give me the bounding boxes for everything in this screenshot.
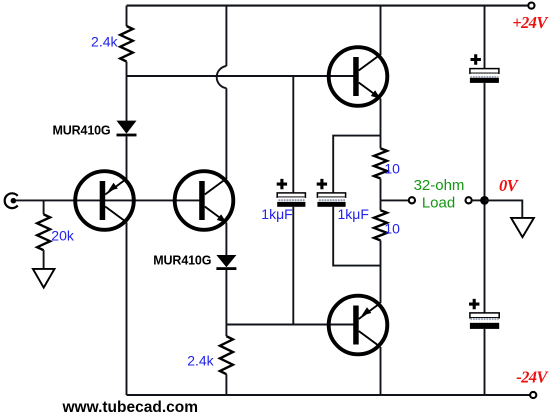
wire: output node to load terminal [381, 199, 409, 201]
diode D1 MUR410G (upper) [117, 121, 137, 134]
diode D2 MUR410G (lower) [216, 255, 236, 267]
svg-text:0V: 0V [499, 176, 520, 195]
wire: +24V to Q3 collector [380, 6, 382, 55]
wire: 0V node to C2 [484, 200, 486, 313]
terminal: load right [466, 197, 472, 203]
wire: C1 to 0V node [484, 83, 486, 200]
wire: Q2 emitter to diode D2 [225, 223, 227, 256]
svg-text:-24V: -24V [516, 368, 549, 387]
resistor 2.4k (bottom) [225, 325, 227, 337]
capacitor C1 (top right electrolytic) [470, 69, 499, 74]
junction: 0V node [480, 196, 489, 205]
wire hop over node-A wire [217, 66, 227, 88]
svg-text:www.tubecad.com: www.tubecad.com [62, 399, 199, 416]
wire: C3 to node B wire [292, 207, 294, 325]
wire: +24V to hop (Q2 collector) [225, 6, 227, 66]
wire: node A to Q3 base [127, 75, 356, 77]
svg-text:+24V: +24V [512, 13, 549, 32]
wire: C4 top lead [333, 136, 380, 194]
capacitor C3 1kuF (left middle) [277, 193, 305, 197]
svg-text:Load: Load [422, 194, 455, 211]
wire: node-A wire to C3 [292, 76, 294, 193]
wire: 0V node to ground [485, 200, 523, 218]
transistor Q3 (NPN output) [329, 47, 388, 106]
resistor 2.4k (top) [126, 6, 128, 26]
wire: +24V top rail [127, 5, 529, 7]
terminal: +24V [528, 3, 534, 9]
svg-text:20k: 20k [51, 228, 75, 244]
capacitor C2 (bottom right electrolytic) [470, 313, 499, 318]
transistor Q1 (PNP input) [75, 171, 134, 230]
terminal: -24V [530, 392, 536, 398]
resistor 10 (lower) [380, 200, 382, 210]
wire: node B to Q4 base [226, 324, 355, 326]
input jack [5, 193, 18, 208]
wire: C4 bottom lead [333, 207, 380, 266]
svg-text:2.4k: 2.4k [187, 353, 214, 369]
svg-text:32-ohm: 32-ohm [414, 177, 465, 194]
svg-text:10: 10 [384, 221, 400, 237]
wire: -24V bottom rail [127, 394, 531, 396]
svg-text:MUR410G: MUR410G [53, 123, 111, 137]
wire: node A to diode D1 [126, 76, 128, 121]
svg-text:10: 10 [384, 160, 400, 176]
ground symbol (0V) [511, 218, 534, 237]
wire: D2 to node B [225, 270, 227, 325]
capacitor C4 1kuF (right middle) [317, 193, 345, 197]
terminal: load left [409, 197, 415, 203]
wire: D1 to Q1 emitter [126, 136, 128, 179]
svg-text:2.4k: 2.4k [91, 33, 118, 49]
resistor 20k [43, 200, 45, 214]
ground symbol (input) [33, 269, 55, 288]
svg-text:1kμF: 1kμF [338, 206, 369, 222]
wire: Q1 collector to bottom rail [126, 223, 128, 396]
transistor Q4 (PNP output) [329, 296, 388, 355]
wire: C2 to -24V rail [484, 329, 486, 395]
svg-text:1kμF: 1kμF [261, 206, 292, 222]
svg-text:MUR410G: MUR410G [153, 254, 211, 268]
wire: hop to Q2 collector [225, 88, 227, 179]
resistor 10 (upper) [380, 99, 382, 149]
wire: load terminal to 0V node [472, 199, 485, 201]
wire: input to Q1/Q2 bases [16, 199, 205, 201]
wire: right supply rail upper (+24V to C1) [484, 6, 486, 70]
wire: Q4 collector to bottom rail [380, 347, 382, 395]
transistor Q2 (NPN input) [175, 171, 234, 230]
